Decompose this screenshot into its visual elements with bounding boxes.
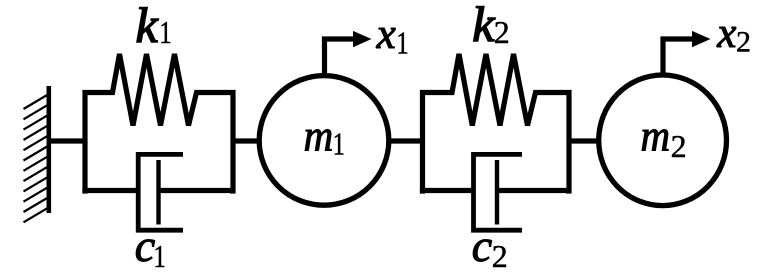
wire right post to mass m2 (569, 138, 600, 143)
wire left post to damper c1 (82, 188, 140, 193)
wire right post to mass m1 (233, 138, 260, 143)
damper c2 piston (495, 160, 499, 225)
wire damper c1 rod to right post (159, 188, 234, 193)
wire damper c2 rod to right post (497, 188, 569, 193)
svg-text:1: 1 (159, 15, 171, 51)
svg-text:x: x (716, 10, 736, 57)
svg-text:2: 2 (736, 25, 751, 58)
wire mass m1 to k2/c2 bracket (389, 138, 425, 143)
svg-text:m: m (641, 112, 671, 161)
svg-text:x: x (376, 11, 396, 58)
wall hatching (24, 94, 49, 222)
wire left post to damper c2 (420, 188, 476, 193)
svg-text:k: k (136, 0, 159, 53)
svg-text:c: c (135, 220, 155, 271)
svg-text:2: 2 (671, 128, 687, 164)
svg-text:m: m (304, 112, 334, 161)
svg-text:1: 1 (153, 239, 165, 274)
arrow x1 (325, 39, 357, 74)
wire wall to k1/c1 bracket (49, 138, 87, 143)
damper c1 cylinder (138, 154, 183, 230)
wall (46, 86, 51, 213)
spring k1 (top branch with posts) (85, 54, 233, 194)
svg-text:1: 1 (333, 126, 345, 162)
label m2 (641, 112, 671, 161)
damper c1 piston (156, 160, 160, 225)
mass m1 (259, 76, 389, 206)
svg-text:k: k (472, 0, 495, 52)
svg-text:2: 2 (494, 14, 510, 50)
arrow x2 (663, 39, 695, 74)
damper c2 cylinder (474, 154, 523, 230)
svg-text:2: 2 (492, 238, 508, 274)
svg-text:c: c (472, 220, 492, 271)
label m1 (304, 112, 334, 161)
svg-text:1: 1 (396, 26, 408, 62)
spring k2 (top branch with posts) (423, 54, 570, 194)
mass m2 (599, 75, 727, 206)
